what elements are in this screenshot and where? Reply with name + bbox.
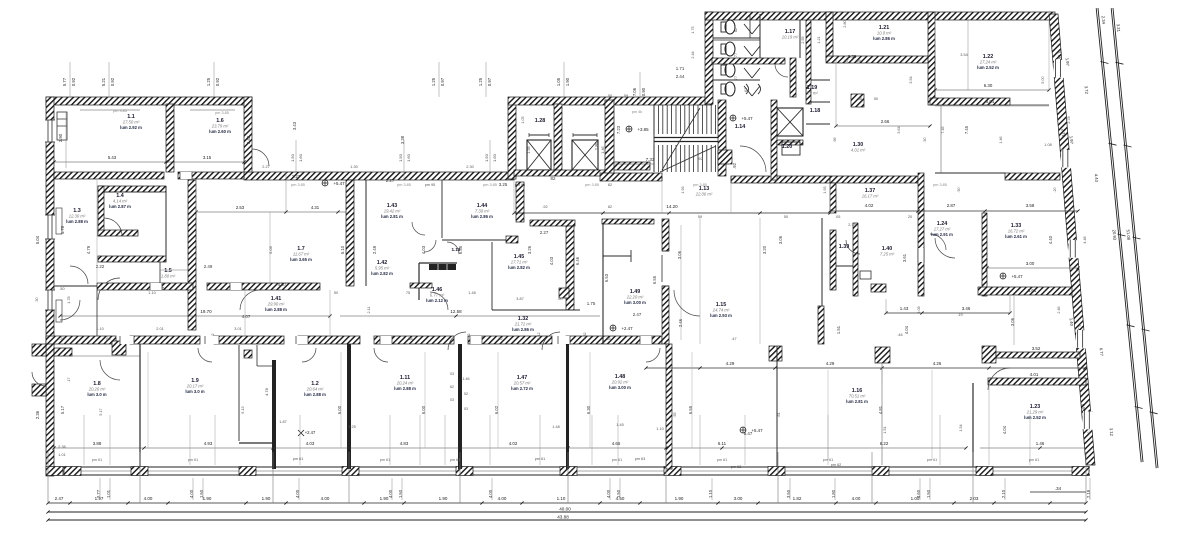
svg-text:pm 3.85: pm 3.85 [585,183,599,187]
svg-text:1.10: 1.10 [656,427,663,431]
svg-text:pm 61: pm 61 [823,458,834,462]
svg-text:50: 50 [334,291,338,295]
svg-text:lum 3.0 m: lum 3.0 m [87,392,107,397]
svg-text:1.28: 1.28 [535,118,546,124]
svg-text:20: 20 [908,215,912,219]
svg-text:lum 2.88 m: lum 2.88 m [66,219,88,224]
svg-text:.58: .58 [407,337,412,341]
svg-text:1.10: 1.10 [96,327,103,331]
svg-text:3.64: 3.64 [897,126,901,133]
svg-text:pm 3.85: pm 3.85 [291,183,305,187]
svg-text:3.52: 3.52 [1032,346,1041,351]
svg-text:.50: .50 [59,287,64,291]
svg-text:1.58: 1.58 [527,146,531,153]
svg-text:1.60: 1.60 [406,153,411,162]
svg-text:3.9 m²: 3.9 m² [806,91,818,96]
svg-text:5.17: 5.17 [99,408,103,415]
svg-text:lum 2.82 m: lum 2.82 m [508,265,530,270]
svg-text:1.50: 1.50 [290,153,295,162]
svg-text:6.01: 6.01 [986,99,995,104]
svg-text:1.87: 1.87 [279,420,286,424]
svg-text:lum 2.87 m: lum 2.87 m [109,204,131,209]
svg-text:1.51: 1.51 [836,325,841,334]
svg-text:1.40: 1.40 [1069,318,1075,327]
svg-text:.56: .56 [833,137,837,142]
svg-text:5.10: 5.10 [340,245,345,254]
svg-text:2.35: 2.35 [848,54,857,59]
svg-text:7.23: 7.23 [616,125,621,134]
svg-text:pm 61: pm 61 [717,458,728,462]
svg-text:pm 61: pm 61 [450,458,461,462]
svg-text:3.26: 3.26 [527,245,532,254]
svg-text:03: 03 [464,407,468,411]
svg-text:4.03: 4.03 [549,256,554,265]
svg-text:5.21: 5.21 [101,77,106,86]
svg-text:.52: .52 [497,337,502,341]
svg-text:19.42 m²: 19.42 m² [384,209,401,214]
svg-text:2.78: 2.78 [1067,116,1071,123]
svg-text:lum 2.72 m: lum 2.72 m [511,386,533,391]
svg-text:1.78: 1.78 [60,225,65,234]
svg-text:lum 2.52 m: lum 2.52 m [1024,415,1046,420]
svg-text:1.90: 1.90 [203,496,212,501]
svg-text:3.15: 3.15 [203,155,212,160]
svg-text:pm 62: pm 62 [731,465,742,469]
svg-text:lum 2.60 m: lum 2.60 m [209,129,231,134]
svg-text:6.30: 6.30 [984,83,993,88]
svg-text:+2.47: +2.47 [305,430,316,435]
svg-text:1.10: 1.10 [557,496,566,501]
svg-text:3.88: 3.88 [93,441,102,446]
svg-text:+5.47: +5.47 [741,116,753,121]
svg-text:5.77: 5.77 [62,77,67,86]
svg-text:3.54: 3.54 [960,53,967,57]
svg-text:.30: .30 [35,297,39,302]
svg-text:0.92: 0.92 [110,77,115,86]
svg-text:4.29: 4.29 [826,361,835,366]
svg-text:.55: .55 [673,412,677,417]
svg-text:16.72 m²: 16.72 m² [1008,229,1025,234]
svg-text:3.12: 3.12 [1109,428,1115,437]
svg-text:70.51 m²: 70.51 m² [849,394,866,399]
svg-text:10.19 m²: 10.19 m² [782,35,799,40]
svg-text:1.97: 1.97 [1069,136,1075,145]
svg-text:4.04: 4.04 [904,325,909,334]
svg-text:14.20: 14.20 [666,204,678,209]
svg-text:3.06: 3.06 [778,235,783,244]
svg-text:62: 62 [744,88,748,92]
svg-text:5.17: 5.17 [60,405,65,414]
svg-text:7.30 m²: 7.30 m² [475,209,490,214]
svg-text:1.46: 1.46 [999,136,1003,143]
svg-text:3.06: 3.06 [1010,317,1015,326]
svg-text:17.71 m²: 17.71 m² [511,260,528,265]
svg-text:+5.47: +5.47 [751,428,763,433]
svg-text:lum 3.65 m: lum 3.65 m [290,257,312,262]
svg-text:.92: .92 [732,162,737,168]
svg-text:20.57 m²: 20.57 m² [513,381,531,386]
svg-text:4.83: 4.83 [400,441,409,446]
svg-text:2.46: 2.46 [678,318,683,327]
svg-text:2.55: 2.55 [801,36,805,43]
svg-text:21.72 m²: 21.72 m² [514,322,532,327]
svg-text:.59: .59 [855,59,860,63]
svg-text:20.92 m²: 20.92 m² [611,380,629,385]
svg-text:4.65: 4.65 [612,441,621,446]
svg-text:1.46: 1.46 [1036,441,1045,446]
svg-text:4.01 m²: 4.01 m² [851,148,866,153]
svg-text:3.06: 3.06 [677,250,682,259]
svg-text:24.74 m²: 24.74 m² [712,308,730,313]
svg-text:1.05: 1.05 [556,77,561,86]
svg-text:12.58: 12.58 [450,309,462,314]
svg-text:pm 3.85: pm 3.85 [483,183,497,187]
svg-text:1.43: 1.43 [900,306,909,311]
svg-text:6.77: 6.77 [1099,348,1105,357]
svg-text:20.26 m²: 20.26 m² [88,387,106,392]
svg-text:4.00: 4.00 [144,496,153,501]
svg-text:1.60: 1.60 [298,153,303,162]
svg-text:0.97: 0.97 [487,77,492,86]
svg-text:2.44: 2.44 [691,51,695,58]
svg-text:.34: .34 [1055,486,1062,491]
svg-text:2.27: 2.27 [292,174,301,179]
svg-text:4.31: 4.31 [311,205,320,210]
svg-text:1.39: 1.39 [839,244,850,250]
svg-text:5.09: 5.09 [268,245,273,254]
svg-text:2.03: 2.03 [970,496,979,501]
svg-text:4.14 m²: 4.14 m² [113,199,128,204]
svg-text:0.97: 0.97 [440,77,445,86]
svg-text:1.80: 1.80 [594,141,599,150]
svg-text:1.97: 1.97 [1065,58,1071,67]
svg-text:1.51: 1.51 [883,426,887,433]
svg-text:1.48: 1.48 [468,291,475,295]
svg-text:2.36: 2.36 [35,410,40,419]
svg-text:7.45: 7.45 [941,126,945,133]
svg-text:4.79: 4.79 [86,245,91,254]
svg-text:59: 59 [624,94,628,98]
svg-text:6.00: 6.00 [337,405,342,414]
svg-text:1.54: 1.54 [959,424,963,431]
svg-text:7.06: 7.06 [632,87,637,96]
svg-text:2.36: 2.36 [58,445,65,449]
svg-text:1.01: 1.01 [58,453,65,457]
svg-text:1.93: 1.93 [681,186,685,193]
svg-text:.30: .30 [59,337,64,341]
svg-text:X5: X5 [836,215,841,219]
svg-text:6.30: 6.30 [586,405,591,414]
svg-text:10.0 m²: 10.0 m² [877,31,892,36]
svg-text:19.70: 19.70 [200,309,212,314]
svg-text:1.82: 1.82 [793,496,802,501]
svg-text:lum 2.86 m: lum 2.86 m [512,327,534,332]
svg-text:20.24 m²: 20.24 m² [396,381,414,386]
svg-text:4.02: 4.02 [509,441,518,446]
svg-text:pm 3.85: pm 3.85 [113,109,127,113]
svg-text:4.93: 4.93 [204,441,213,446]
svg-text:6.55: 6.55 [688,405,693,414]
svg-text:4.81: 4.81 [878,405,883,414]
svg-text:40.00: 40.00 [559,507,571,512]
svg-text:6.55: 6.55 [652,275,657,284]
svg-text:pm 4k: pm 4k [632,110,642,114]
svg-text:1.75: 1.75 [587,301,596,306]
svg-text:pm 3.85: pm 3.85 [215,111,229,115]
svg-text:3.58: 3.58 [1026,203,1035,208]
svg-text:21.29 m²: 21.29 m² [1026,410,1044,415]
svg-text:+5.47: +5.47 [333,181,345,186]
svg-text:4.40: 4.40 [1048,235,1053,244]
svg-text:7.33: 7.33 [646,157,655,162]
svg-text:2.34: 2.34 [1101,16,1107,25]
svg-text:+2.47: +2.47 [621,326,633,331]
svg-text:pm 95: pm 95 [515,183,526,187]
svg-text:lum 2.88 m: lum 2.88 m [265,307,287,312]
svg-text:3.01: 3.01 [234,327,241,331]
svg-text:3.38: 3.38 [400,135,405,144]
svg-text:lum 2.52 m: lum 2.52 m [977,65,999,70]
svg-text:1.32: 1.32 [583,332,587,339]
svg-text:7.25 m²: 7.25 m² [880,252,895,257]
svg-text:6.00: 6.00 [421,405,426,414]
svg-text:2.49: 2.49 [204,264,213,269]
svg-text:1.78: 1.78 [67,296,71,303]
svg-text:2.01: 2.01 [156,327,163,331]
svg-text:lum 2.91 m: lum 2.91 m [931,232,953,237]
svg-text:lum 3.00 m: lum 3.00 m [609,385,631,390]
svg-text:lum 3.0 m: lum 3.0 m [185,389,205,394]
svg-text:2.66: 2.66 [881,119,890,124]
svg-text:1.21: 1.21 [817,36,821,43]
svg-text:3.08: 3.08 [917,306,921,313]
svg-text:20.64 m²: 20.64 m² [306,387,324,392]
svg-text:1.93: 1.93 [823,186,827,193]
svg-text:23.79 m²: 23.79 m² [211,124,229,129]
svg-text:77: 77 [734,53,738,57]
svg-text:2.47: 2.47 [633,312,642,317]
svg-text:pm 61: pm 61 [927,458,938,462]
svg-text:pm 62: pm 62 [831,463,842,467]
svg-text:pm 61: pm 61 [1029,458,1040,462]
svg-text:4.29: 4.29 [726,361,735,366]
svg-text:82: 82 [608,183,612,187]
svg-text:1.71: 1.71 [676,66,685,71]
svg-text:.19: .19 [957,313,962,317]
svg-text:4.02: 4.02 [865,203,874,208]
svg-text:16.17 m²: 16.17 m² [862,194,879,199]
svg-text:1.20: 1.20 [782,144,793,150]
svg-text:.20: .20 [1053,187,1057,192]
svg-text:20.17 m²: 20.17 m² [186,384,204,389]
svg-text:77: 77 [734,76,738,80]
svg-text:3.43: 3.43 [292,121,297,130]
svg-text:2.80: 2.80 [843,20,847,27]
svg-text:pm 61: pm 61 [92,458,103,462]
svg-text:1.80 m²: 1.80 m² [161,274,176,279]
svg-text:4.43: 4.43 [1094,174,1100,183]
svg-text:50: 50 [784,215,788,219]
svg-text:.92: .92 [542,205,547,209]
svg-text:2.46: 2.46 [1057,306,1061,313]
svg-text:+5.47: +5.47 [1011,274,1023,279]
svg-text:.87: .87 [843,59,848,63]
svg-text:lum 3.00 m: lum 3.00 m [624,300,646,305]
svg-text:pm 95: pm 95 [425,183,436,187]
svg-text:52: 52 [464,392,468,396]
svg-text:3.20: 3.20 [762,245,767,254]
svg-text:lum 2.12 m: lum 2.12 m [426,298,448,303]
svg-text:5.43: 5.43 [108,155,117,160]
svg-text:2.44: 2.44 [676,74,685,79]
svg-text:lum 2.92 m: lum 2.92 m [120,125,142,130]
svg-text:75: 75 [406,291,410,295]
svg-text:lum 2.88 m: lum 2.88 m [304,392,326,397]
svg-text:1.90: 1.90 [439,496,448,501]
svg-text:6.22: 6.22 [880,441,889,446]
svg-text:lum 2.61 m: lum 2.61 m [1005,234,1027,239]
svg-text:3.25: 3.25 [499,182,508,187]
svg-text:1.90: 1.90 [262,496,271,501]
svg-text:pm 63: pm 63 [635,457,646,461]
svg-text:1.60: 1.60 [492,153,497,162]
svg-text:1.30: 1.30 [350,165,357,169]
svg-text:4.07: 4.07 [278,282,287,287]
svg-text:1.90: 1.90 [565,77,570,86]
svg-text:.60: .60 [105,337,110,341]
svg-text:29.90 m²: 29.90 m² [267,302,285,307]
svg-text:.46: .46 [897,333,902,337]
svg-text:2.27: 2.27 [540,230,549,235]
svg-text:3.00: 3.00 [734,496,743,501]
svg-text:2.53: 2.53 [236,205,245,210]
svg-text:6.55: 6.55 [458,245,463,254]
svg-text:pm 61: pm 61 [535,457,546,461]
svg-text:2.87: 2.87 [947,203,956,208]
svg-text:50: 50 [874,97,878,101]
svg-text:1.05: 1.05 [521,116,525,123]
svg-text:lum 2.93 m: lum 2.93 m [710,313,732,318]
svg-text:.50: .50 [923,137,927,142]
svg-text:1.46: 1.46 [463,377,470,381]
svg-text:82: 82 [734,28,738,32]
svg-text:3.21: 3.21 [1116,24,1122,33]
svg-text:.50: .50 [957,187,961,192]
svg-text:pm 3.85: pm 3.85 [397,183,411,187]
svg-text:2.90: 2.90 [58,133,63,142]
svg-text:4.07: 4.07 [242,314,251,319]
svg-text:3.61: 3.61 [902,253,907,262]
svg-text:03: 03 [450,372,454,376]
svg-text:0.90: 0.90 [641,87,646,96]
svg-text:1.10: 1.10 [148,291,155,295]
svg-text:82: 82 [551,176,556,181]
svg-text:6.13: 6.13 [241,406,245,413]
svg-text:1.12: 1.12 [537,332,541,339]
svg-text:27.24 m²: 27.24 m² [979,60,997,65]
svg-text:3.72: 3.72 [1084,86,1090,95]
svg-text:4.00: 4.00 [852,496,861,501]
svg-text:4.00: 4.00 [321,496,330,501]
svg-text:4.03: 4.03 [306,441,315,446]
svg-text:lum 2.81 m: lum 2.81 m [381,214,403,219]
svg-text:3.87: 3.87 [516,297,523,301]
svg-text:56: 56 [858,97,862,101]
svg-text:1.45: 1.45 [616,423,623,427]
svg-text:lum 2.81 m: lum 2.81 m [846,399,868,404]
svg-text:1.50: 1.50 [484,153,489,162]
svg-text:4.01: 4.01 [1030,372,1039,377]
svg-text:pm 61: pm 61 [293,457,304,461]
svg-text:43.88: 43.88 [557,515,569,520]
svg-text:1.46: 1.46 [601,146,605,153]
svg-text:4.48: 4.48 [1083,236,1087,243]
svg-text:22.20 m²: 22.20 m² [626,295,644,300]
svg-text:17.27 m²: 17.27 m² [934,227,951,232]
svg-text:1.14: 1.14 [735,124,746,130]
svg-text:62: 62 [450,385,454,389]
svg-text:7.45: 7.45 [964,125,969,134]
svg-text:5.00: 5.00 [1041,76,1045,83]
svg-text:lum 2.86 m: lum 2.86 m [873,36,895,41]
svg-text:lum 2.88 m: lum 2.88 m [394,386,416,391]
svg-text:+3.85: +3.85 [637,127,649,132]
svg-text:.92: .92 [697,157,702,161]
svg-text:4.00: 4.00 [498,496,507,501]
svg-text:2.19: 2.19 [848,223,855,227]
svg-text:22.06 m²: 22.06 m² [695,192,713,197]
svg-text:1.25: 1.25 [431,77,436,86]
svg-text:.47: .47 [731,337,736,341]
svg-text:.55: .55 [605,337,610,341]
svg-text:3.61: 3.61 [1028,288,1037,293]
svg-text:6.02: 6.02 [494,405,499,414]
svg-text:2.27: 2.27 [386,178,395,183]
svg-text:2.30: 2.30 [466,165,473,169]
svg-text:82: 82 [608,205,612,209]
svg-text:3.46: 3.46 [962,306,971,311]
svg-text:2.47: 2.47 [55,496,64,501]
svg-text:4.78: 4.78 [264,387,269,396]
svg-text:2.49: 2.49 [372,245,377,254]
svg-text:pm 61: pm 61 [612,458,623,462]
svg-text:0.92: 0.92 [215,77,220,86]
svg-text:1.18: 1.18 [810,108,821,114]
svg-text:5.04: 5.04 [35,235,40,244]
svg-text:27.50 m²: 27.50 m² [122,120,140,125]
svg-text:1.25: 1.25 [206,77,211,86]
svg-text:3.43: 3.43 [246,135,251,144]
svg-text:lum 2.82 m: lum 2.82 m [371,271,393,276]
svg-text:pm 61: pm 61 [188,458,199,462]
svg-text:pm 3.85: pm 3.85 [693,183,707,187]
svg-text:.50: .50 [557,297,562,301]
svg-text:2.78: 2.78 [1061,129,1067,138]
svg-text:5.95 m²: 5.95 m² [375,266,390,271]
svg-text:lum 2.86 m: lum 2.86 m [471,214,493,219]
svg-text:0.92: 0.92 [71,77,76,86]
svg-text:2.76: 2.76 [1057,51,1063,60]
svg-text:1.90: 1.90 [675,496,684,501]
svg-text:03: 03 [450,398,454,402]
svg-text:11.67 m²: 11.67 m² [293,252,310,257]
svg-text:.17: .17 [67,377,71,382]
svg-text:2.27: 2.27 [262,165,269,169]
svg-text:pm 61: pm 61 [380,458,391,462]
svg-text:4.03: 4.03 [421,245,426,254]
svg-text:12.30 m²: 12.30 m² [69,214,86,219]
svg-text:.61: .61 [777,412,781,417]
